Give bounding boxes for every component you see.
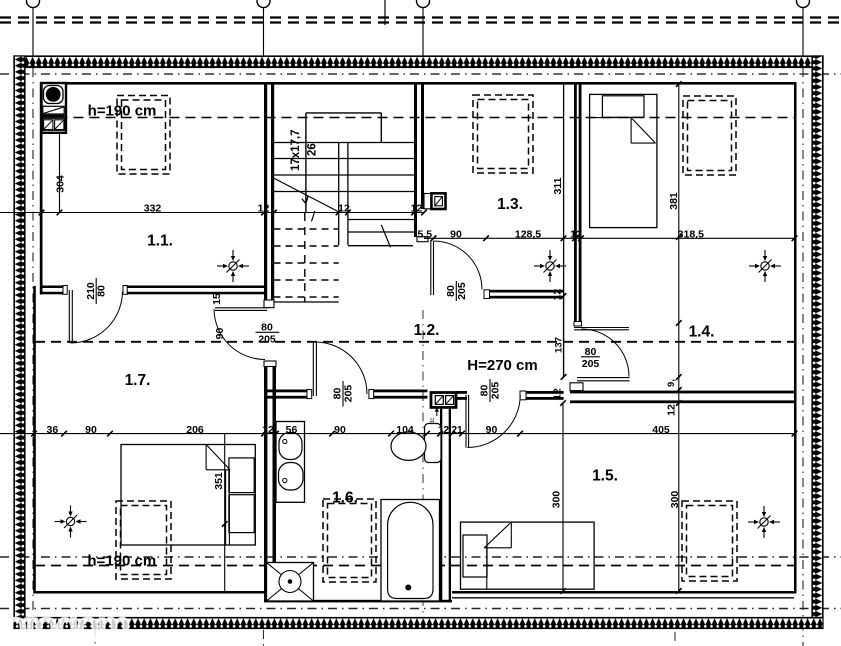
svg-text:36: 36 xyxy=(47,424,59,436)
wall 1.3/1.4 thick band xyxy=(574,84,577,322)
vertical grid dash-dot x=803 xyxy=(802,8,804,57)
stair step 4 xyxy=(274,191,415,193)
svg-text:205: 205 xyxy=(343,385,355,403)
stair bottom edge line xyxy=(274,301,339,303)
grid bubble D x=803 xyxy=(797,0,810,8)
outer wall right (hatched insulation band) xyxy=(812,56,823,618)
hall/1.5 wall segment x520-563 xyxy=(520,391,564,394)
stair dashed step 4 xyxy=(274,279,339,281)
vertical grid dash-dot x=33 xyxy=(32,8,34,56)
bed 1.7 folded corner xyxy=(206,445,230,470)
door jamb 1.1/1.7 right xyxy=(123,286,127,295)
wall 1.7/1.2 segment below door xyxy=(264,361,267,601)
level marker room 1.1 xyxy=(217,250,249,282)
door 1.2-1.6 leaf xyxy=(312,342,314,396)
bed 1.7 pillow 2 xyxy=(229,495,254,533)
outer wall bottom (hatched insulation band) xyxy=(14,618,823,629)
outer wall left (hatched insulation band) xyxy=(14,56,25,618)
stair lower-flight step 2 xyxy=(348,231,414,233)
wall 1.1/1.7 left segment xyxy=(42,286,68,289)
sink basin 2 xyxy=(279,463,304,491)
stair dashed step 2 xyxy=(274,245,339,247)
bathroom top wall segment middle xyxy=(369,390,428,393)
grid axis top double-dashed line xyxy=(0,16,841,18)
stair lower-flight step 1 xyxy=(348,219,414,221)
bathroom top wall segment west xyxy=(264,390,312,393)
svg-text:5,5: 5,5 xyxy=(417,228,432,240)
bed room 1.4 xyxy=(590,94,657,227)
bed 1.5 blanket edge xyxy=(486,548,488,589)
svg-text:1.7.: 1.7. xyxy=(125,372,151,389)
svg-text:17x17,7: 17x17,7 xyxy=(290,129,302,171)
svg-text:300: 300 xyxy=(551,491,563,509)
wall 1.3/1.4 thin face line xyxy=(563,84,565,377)
bathtub drain xyxy=(405,585,411,591)
door jamb bathroom middle xyxy=(369,390,374,399)
svg-text:1.5.: 1.5. xyxy=(592,468,618,485)
bed 1.4 blanket edge xyxy=(590,117,632,119)
stair landing left line x=305.9 xyxy=(305,113,307,213)
door jamb wall 1.3/1.4 bottom xyxy=(574,322,582,327)
wall 1.6/1.5 x=440..451 xyxy=(440,407,442,601)
wall 1.4/1.5 xyxy=(570,391,794,394)
svg-text:1.2.: 1.2. xyxy=(414,322,440,339)
grid bubble B x=263.5 xyxy=(257,0,270,8)
stair dashed step 1 xyxy=(274,228,339,230)
vertical grid dash-dot x=263.5 xyxy=(263,8,265,57)
svg-text:104: 104 xyxy=(396,424,414,436)
svg-text:205: 205 xyxy=(456,282,468,300)
stair walk line upper xyxy=(274,178,340,212)
dimension line B y=237 xyxy=(424,237,795,239)
svg-text:300: 300 xyxy=(669,491,681,509)
bathtub outer xyxy=(381,500,440,602)
svg-text:1.6.: 1.6. xyxy=(332,489,358,506)
svg-text:205: 205 xyxy=(258,333,276,345)
sink basin 1 xyxy=(279,433,302,460)
svg-text:12: 12 xyxy=(338,202,350,214)
inner face bottom wall (bathroom 1.6) xyxy=(264,600,452,603)
dimension line A y=212.5 xyxy=(0,212,424,214)
hall/1.5 wall segment x456-467 xyxy=(457,391,468,394)
door 1.2-1.3 swing arc xyxy=(434,241,483,290)
inner face left wall (room 1.1) xyxy=(40,82,43,295)
wall stairwell left x=264..274 xyxy=(264,84,267,303)
chimney vent square 1 xyxy=(44,120,53,130)
svg-text:H=270 cm: H=270 cm xyxy=(467,357,537,374)
inner face bottom wall (room 1.5) xyxy=(452,591,796,594)
chimney block outline (top-left) xyxy=(42,83,67,133)
level marker room 1.7 xyxy=(55,506,87,538)
shower tray xyxy=(267,563,314,602)
door 1.2-1.4 threshold xyxy=(577,377,630,379)
door jamb wall 1.2/1.3 xyxy=(484,290,490,299)
roof dash-dot line y=74 xyxy=(0,73,841,75)
bed 1.7 pillow 1 xyxy=(229,458,254,493)
skylight room 1.3 xyxy=(473,95,533,173)
svg-text:304: 304 xyxy=(55,175,67,193)
svg-text:318,5: 318,5 xyxy=(678,228,704,240)
door jamb 1.1/1.7 left xyxy=(63,286,67,295)
door size 80/205 rotated (1.2-1.5) xyxy=(489,379,491,402)
grid bubble C x=423 xyxy=(417,0,430,8)
svg-text:26: 26 xyxy=(307,143,319,156)
door jamb stair-left wall bottom xyxy=(264,300,274,308)
wall stairwell right x=414..424 xyxy=(414,84,417,237)
vertical grid stub x=675 bottom xyxy=(674,632,676,646)
bed 1.4 folded corner xyxy=(631,118,655,144)
door jamb 1.5 east xyxy=(520,391,526,400)
chimney dark band xyxy=(42,115,65,118)
inner face left wall (room 1.7) xyxy=(33,286,36,594)
outer wall top (hatched insulation band) xyxy=(14,56,823,68)
svg-text:1.4.: 1.4. xyxy=(689,324,715,341)
svg-text:12: 12 xyxy=(666,404,678,416)
chimney middle cell with diagonal xyxy=(43,106,64,114)
door size 80/205 rotated (1.2-1.6) xyxy=(342,381,344,407)
chimney flue cell with circle xyxy=(44,86,64,104)
shower diagonal 2 xyxy=(267,563,314,602)
svg-text:311: 311 xyxy=(552,177,564,194)
svg-text:12: 12 xyxy=(438,425,450,436)
inner face top wall xyxy=(42,82,797,85)
stairwell landing top edge xyxy=(306,112,381,114)
vertical grid dash-dot x=423 xyxy=(422,8,424,57)
vent box bathroom xyxy=(431,393,456,408)
vent box at stair wall stub xyxy=(424,194,431,209)
h=190 dashed line top y=117.5 xyxy=(42,117,795,119)
sink basin 2 faucet xyxy=(283,478,287,482)
svg-text:80: 80 xyxy=(261,321,273,333)
skylight bathroom 1.6 xyxy=(323,499,376,582)
stair stringer line 1 xyxy=(338,143,340,246)
door jamb stair-right wall bottom xyxy=(417,237,428,242)
svg-text:15: 15 xyxy=(211,293,223,305)
door 1.2-1.3 leaf xyxy=(430,241,432,295)
door size 210/80 rotated (1.1-1.7) xyxy=(95,278,97,304)
svg-text:90: 90 xyxy=(486,424,498,436)
dimension line vertical x=678.8 (381/300) xyxy=(678,84,680,591)
sink basin 1 faucet xyxy=(283,439,287,443)
stair landing right line x=381.3 xyxy=(380,113,382,143)
svg-text:90: 90 xyxy=(85,424,97,436)
door 1.7-1.2 swing arc xyxy=(214,309,265,360)
toilet bowl xyxy=(391,432,426,460)
dimension line vertical x=224.7 (351) xyxy=(224,434,226,591)
svg-text:1.1.: 1.1. xyxy=(147,233,173,250)
door size 80/205 (1.7-1.2) xyxy=(256,331,280,333)
dimension line C y=433.6 xyxy=(0,433,795,435)
door jamb bathroom west xyxy=(307,390,312,399)
svg-text:205: 205 xyxy=(582,358,600,370)
svg-text:12: 12 xyxy=(411,202,423,214)
inner face right wall xyxy=(794,82,797,594)
toilet tank xyxy=(425,424,442,463)
door 1.2-1.4 leaf xyxy=(574,327,629,329)
svg-text:h=190 cm: h=190 cm xyxy=(87,553,156,570)
skylight room 1.1 xyxy=(117,96,170,175)
svg-text:h=190 cm: h=190 cm xyxy=(88,103,157,120)
svg-text:206: 206 xyxy=(186,424,204,436)
dimension line vertical x=59.5 (304) xyxy=(59,133,61,213)
stair landing left line dashed continuation xyxy=(304,213,306,302)
door 1.2-1.5 leaf xyxy=(465,395,467,448)
bathtub inner xyxy=(388,502,433,598)
svg-text:405: 405 xyxy=(652,424,670,436)
vent box inner square with diagonal xyxy=(435,197,443,206)
shower diagonal 1 xyxy=(267,563,314,602)
bed 1.4 pillow xyxy=(602,96,644,118)
svg-text:90: 90 xyxy=(214,328,226,340)
h=190 dashed line bottom y=565.5 xyxy=(35,565,794,567)
svg-text:351: 351 xyxy=(213,472,225,490)
sink counter xyxy=(276,422,305,503)
svg-text:90: 90 xyxy=(450,228,462,240)
dimension line vertical x=563.5 (137) xyxy=(563,296,565,377)
stair stringer line 2 xyxy=(347,143,349,246)
svg-text:12: 12 xyxy=(570,228,582,240)
grid bubble A x=33 xyxy=(27,0,40,8)
svg-text:1.3.: 1.3. xyxy=(497,196,523,213)
stair step 3 xyxy=(274,174,415,176)
svg-text:137: 137 xyxy=(554,337,565,353)
stair dashed step 5 xyxy=(274,296,339,298)
dimension line vertical x=563 (300/137) xyxy=(562,403,564,591)
bed 1.5 folded corner xyxy=(484,522,511,548)
door jamb 1.7/1.2 xyxy=(264,361,276,367)
door size 80/205 rotated (1.2-1.3) xyxy=(455,281,457,301)
roof dash-dot line y=608.5 xyxy=(0,608,841,610)
inner face bottom wall (room 1.7) xyxy=(34,591,264,594)
skylight room 1.5 xyxy=(682,501,737,581)
svg-text:12: 12 xyxy=(262,424,274,436)
stair lower-flight bottom edge xyxy=(348,245,413,247)
h=190 dashed line middle y=341.8 xyxy=(35,341,794,343)
level marker room 1.3 xyxy=(534,250,566,282)
vent box bathroom square 1 xyxy=(435,396,443,405)
roof dash-dot line y=557 xyxy=(0,556,841,558)
svg-text:otodom: otodom xyxy=(4,605,129,646)
stair walk-line slash xyxy=(312,211,315,222)
door jamb wall 1.4/1.5 left xyxy=(570,383,583,391)
wall 1.1/1.7 right segment xyxy=(123,286,265,289)
door 1.7-1.2 leaf xyxy=(215,307,267,309)
svg-text:80: 80 xyxy=(96,285,108,297)
level marker room 1.4 xyxy=(749,250,781,282)
door 1.2-1.4 swing arc xyxy=(582,329,630,377)
svg-text:332: 332 xyxy=(144,202,162,214)
level marker room 1.5 xyxy=(748,506,780,538)
shower drain circle xyxy=(279,571,301,593)
svg-text:9,: 9, xyxy=(666,379,677,387)
door 1.1-1.7 swing arc xyxy=(71,292,123,344)
svg-text:128,5: 128,5 xyxy=(515,228,541,240)
vent box bathroom square 2 xyxy=(446,396,454,405)
svg-text:205: 205 xyxy=(490,382,502,400)
svg-text:90: 90 xyxy=(334,424,346,436)
vent box at stair wall xyxy=(431,193,445,209)
bed 1.5 pillow xyxy=(463,535,487,577)
svg-text:12: 12 xyxy=(258,202,270,214)
double bed room 1.7 xyxy=(121,445,255,546)
svg-text:56: 56 xyxy=(286,424,298,436)
bed room 1.5 xyxy=(461,522,595,589)
svg-text:21: 21 xyxy=(451,425,463,436)
stair step 1 xyxy=(274,142,415,144)
wall 1.2/1.3 xyxy=(484,290,564,293)
vent arrow below box xyxy=(436,410,438,416)
chimney vent square 2 xyxy=(55,120,64,130)
svg-text:80: 80 xyxy=(585,346,597,358)
stair break slash xyxy=(381,225,390,247)
door 1.2-1.6 swing arc xyxy=(315,342,367,394)
stair step 2 xyxy=(274,158,415,160)
door 1.1-1.7 leaf xyxy=(68,290,70,343)
stair walk-line arrowhead xyxy=(306,196,308,204)
stair dashed step 3 xyxy=(274,262,339,264)
grid line stub x=385 xyxy=(384,0,386,25)
door size 80/205 (1.2-1.4) xyxy=(581,356,600,358)
svg-text:381: 381 xyxy=(668,192,680,210)
chimney bottom cell xyxy=(43,118,65,130)
skylight room 1.7 xyxy=(116,501,171,579)
svg-text:12: 12 xyxy=(552,289,564,301)
inner face bottom wall second line (room 1.5) xyxy=(452,597,794,599)
svg-text:12: 12 xyxy=(552,388,564,400)
skylight room 1.4 xyxy=(683,96,736,175)
door 1.2-1.5 swing arc xyxy=(467,395,520,448)
vertical grid stub x=95 bottom xyxy=(94,628,96,646)
bed 1.7 blanket edge xyxy=(225,470,227,545)
